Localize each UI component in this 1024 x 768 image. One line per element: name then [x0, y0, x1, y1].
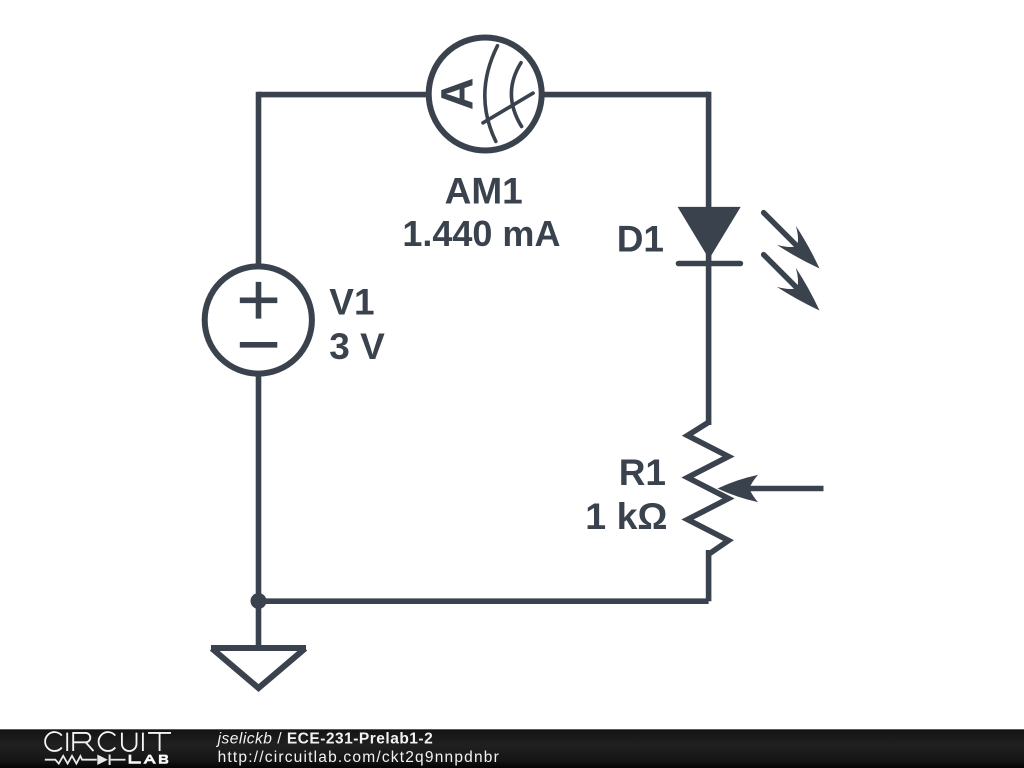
label 3 V: [329, 326, 385, 367]
wire top (V1 to D1 through AM1): [259, 92, 709, 98]
svg-text:A: A: [432, 78, 483, 111]
label AM1: [445, 170, 523, 211]
label R1: [619, 452, 666, 493]
wire bottom: [256, 598, 709, 604]
LED arrow 2: [754, 245, 829, 320]
label V1: [329, 281, 374, 322]
label D1: [617, 218, 664, 259]
footer line 2: url: [218, 749, 500, 766]
LED D1 (photodiode style arrows): [678, 207, 741, 264]
wire right vertical lower (R1 to bottom): [706, 550, 712, 601]
logo mini schematic resistor + diode: [45, 755, 126, 766]
logo LAB (drawn block letters): [129, 755, 169, 764]
svg-text:R1: R1: [619, 452, 666, 493]
svg-text:jselickb / ECE-231-Prelab1-2: jselickb / ECE-231-Prelab1-2: [216, 731, 434, 748]
svg-text:AM1: AM1: [445, 170, 523, 211]
CircuitLab logo CIRCUIT (hand-drawn thin letters): [45, 732, 171, 751]
R1 wiper arrow: [718, 475, 824, 502]
wire right vertical upper (to D1): [706, 92, 712, 425]
ground symbol: [211, 648, 306, 688]
node junction dot: [251, 593, 267, 609]
ammeter AM1: [429, 38, 542, 151]
svg-text:1.440 mA: 1.440 mA: [402, 213, 560, 254]
footer bar: [0, 729, 1024, 768]
ground stub wire: [256, 601, 262, 647]
voltage source V1: [205, 266, 312, 373]
LED arrow 1: [754, 203, 829, 278]
svg-text:V1: V1: [329, 281, 374, 322]
svg-text:1 kΩ: 1 kΩ: [585, 495, 667, 537]
wire left vertical (V1 branch): [256, 92, 262, 601]
label 1.440 mA: [402, 213, 560, 254]
svg-text:D1: D1: [617, 218, 664, 259]
footer line 1: author / title: [216, 731, 434, 748]
svg-text:3 V: 3 V: [329, 326, 385, 367]
svg-text:http://circuitlab.com/ckt2q9nn: http://circuitlab.com/ckt2q9nnpdnbr: [218, 749, 500, 766]
label 1 kOhm: [585, 495, 667, 537]
potentiometer R1 zigzag: [688, 422, 729, 554]
